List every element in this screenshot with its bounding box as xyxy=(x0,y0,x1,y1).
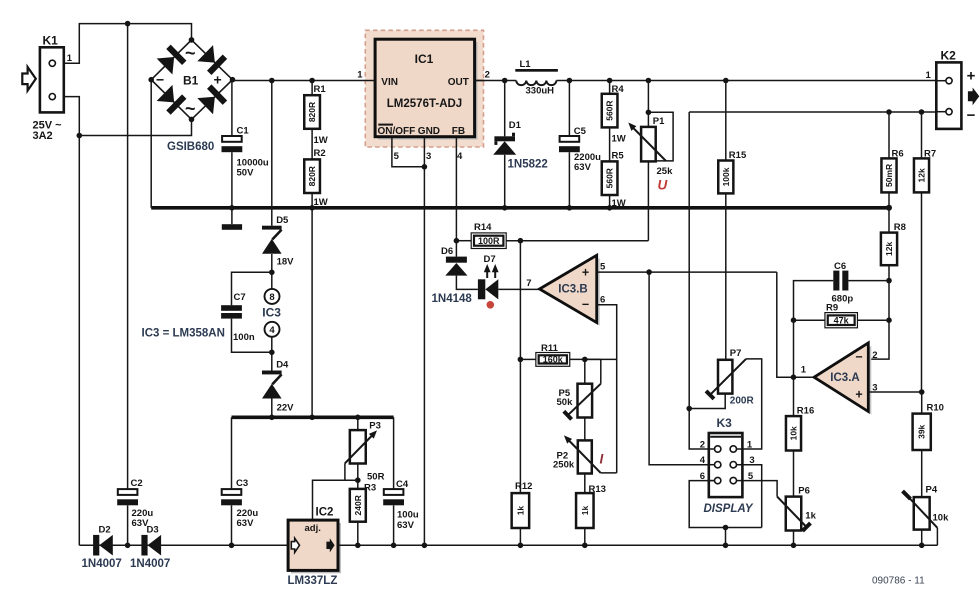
junction R12 / bottom rail xyxy=(518,543,524,549)
potentiometer P4 xyxy=(914,497,930,529)
svg-text:GSIB680: GSIB680 xyxy=(167,141,214,153)
svg-text:100k: 100k xyxy=(721,167,731,186)
junction D4 / bus2 xyxy=(269,415,275,421)
wire K3 gnd to rail xyxy=(725,528,727,546)
junction rail / R1 xyxy=(309,78,315,84)
bridge diode top-left xyxy=(157,45,187,75)
wire D1 bottom xyxy=(504,155,506,208)
wire P1 top xyxy=(647,81,649,127)
svg-text:P4: P4 xyxy=(926,484,938,495)
wire C1 bottom xyxy=(231,152,233,208)
svg-text:R8: R8 xyxy=(894,222,906,233)
svg-text:25k: 25k xyxy=(657,166,674,177)
LED arrows xyxy=(486,269,488,279)
wire R4 top xyxy=(609,81,611,94)
inductor L1 xyxy=(515,69,558,72)
junction P4 / bottom rail xyxy=(919,543,925,549)
P6 wiper xyxy=(777,497,806,527)
wire P5 wiper feed xyxy=(585,358,601,360)
resistor R15 xyxy=(718,161,733,194)
wire IC1 pin3 to bottom rail xyxy=(423,137,425,546)
svg-text:47k: 47k xyxy=(834,315,850,325)
junction R2 / 0V bus xyxy=(309,205,315,211)
svg-text:2: 2 xyxy=(485,70,490,81)
svg-text:D5: D5 xyxy=(276,215,289,226)
svg-text:1k: 1k xyxy=(580,506,590,516)
wire K2pin2 to K3 pin2 xyxy=(689,112,714,449)
junction rail / D5 chain xyxy=(269,78,275,84)
resistor R3 xyxy=(350,489,366,522)
svg-text:820R: 820R xyxy=(307,102,317,122)
wire rail L1 to K2 xyxy=(556,80,936,82)
svg-text:C6: C6 xyxy=(834,261,846,272)
junction R5 / 0V bus xyxy=(607,205,613,211)
zener D5 xyxy=(262,226,282,230)
svg-text:63V: 63V xyxy=(574,162,592,173)
svg-text:C7: C7 xyxy=(234,292,246,303)
wire D4 to bus2 xyxy=(271,399,273,418)
potentiometer P3 xyxy=(350,430,366,463)
svg-text:D1: D1 xyxy=(509,120,522,131)
junction K3 gnd xyxy=(723,525,729,531)
svg-text:−: − xyxy=(855,350,862,364)
svg-text:820R: 820R xyxy=(307,166,317,186)
ground symbol xyxy=(231,208,233,224)
wire C1 top xyxy=(231,81,233,137)
wire IC1 FB pin4 xyxy=(455,137,457,241)
svg-text:D7: D7 xyxy=(484,254,496,265)
junction C4 / bottom rail xyxy=(391,543,397,549)
svg-text:U: U xyxy=(658,178,669,193)
wire bridge minus vertex down xyxy=(150,80,152,208)
wire bus2 right end to C4 xyxy=(393,417,395,489)
wire P5 top xyxy=(584,359,586,383)
op IC1 regulator LM2576T-ADJ xyxy=(365,30,483,147)
wire P5-P2 xyxy=(584,418,586,441)
svg-text:4: 4 xyxy=(700,455,706,466)
svg-text:R12: R12 xyxy=(515,481,532,492)
wire C5 top xyxy=(568,81,570,137)
wire K1 pin2 to bridge AC2 xyxy=(79,119,191,135)
bridge rectifier B1 outline xyxy=(151,40,232,120)
wire K1 pin1 to top rail and bridge AC1 xyxy=(55,24,192,64)
bridge diode bottom-right xyxy=(197,84,227,114)
svg-text:560R: 560R xyxy=(605,168,615,188)
wire R6 bottom xyxy=(888,192,890,207)
wire C6 left xyxy=(794,281,834,321)
junction rail / R15 xyxy=(723,78,729,84)
junction FB node xyxy=(454,238,460,244)
svg-text:R9: R9 xyxy=(826,302,838,313)
0V bus 2 (thick) xyxy=(232,415,394,419)
junction K1 pin2 / bridge AC2 xyxy=(77,133,83,139)
svg-text:IC3: IC3 xyxy=(262,306,281,320)
junction pin1 node xyxy=(791,374,797,380)
svg-text:R14: R14 xyxy=(474,222,492,233)
wire IC3.A pin3 xyxy=(868,391,921,393)
svg-text:D6: D6 xyxy=(441,246,453,257)
svg-text:−: − xyxy=(156,72,164,88)
svg-text:1N4148: 1N4148 xyxy=(432,293,473,305)
svg-text:12k: 12k xyxy=(884,242,894,256)
svg-text:−: − xyxy=(967,107,976,124)
wire D6 top xyxy=(455,241,457,257)
resistor R14 xyxy=(471,233,506,249)
svg-text:160k: 160k xyxy=(543,355,564,365)
junction rail / C5 xyxy=(567,78,573,84)
svg-text:5: 5 xyxy=(600,262,606,273)
junction K3 / bottom rail xyxy=(723,543,729,549)
wire R6 top xyxy=(888,112,890,158)
svg-text:+: + xyxy=(967,68,976,85)
P3 wiper xyxy=(345,434,374,464)
svg-text:2: 2 xyxy=(872,350,877,361)
wire bus link vertical xyxy=(311,208,313,417)
P7 wiper xyxy=(710,359,746,395)
svg-text:1N4007: 1N4007 xyxy=(82,558,122,570)
svg-text:18V: 18V xyxy=(277,256,295,267)
op-amp IC3.A xyxy=(817,346,871,415)
svg-text:560R: 560R xyxy=(605,100,615,120)
svg-text:R6: R6 xyxy=(892,148,904,159)
K3 pin stubs xyxy=(709,448,715,450)
svg-text:330uH: 330uH xyxy=(526,86,555,97)
svg-text:VIN: VIN xyxy=(381,77,398,88)
wire pin5 to K3 pin4 xyxy=(649,272,715,465)
svg-text:50R: 50R xyxy=(367,471,385,482)
wire C6 right xyxy=(848,280,889,282)
junction rail / R4 xyxy=(607,78,613,84)
svg-text:R1: R1 xyxy=(314,84,327,95)
wire D5 to pin8 node xyxy=(271,254,273,272)
P4 wiper xyxy=(907,495,938,528)
svg-text:P3: P3 xyxy=(369,421,381,432)
junction R14 right / R12 chain xyxy=(518,238,524,244)
wire C2 bottom xyxy=(127,505,129,545)
diode D6 xyxy=(446,257,467,263)
wire C3 bottom xyxy=(231,505,233,545)
capacitor C7 xyxy=(221,305,242,311)
svg-text:~: ~ xyxy=(185,43,196,63)
svg-text:IC3.B: IC3.B xyxy=(558,284,587,296)
junction C2 / bottom rail xyxy=(125,543,131,549)
svg-text:100n: 100n xyxy=(233,332,255,343)
svg-text:240R: 240R xyxy=(353,495,363,515)
wire R8 bottom to pin2 xyxy=(868,265,889,359)
wire K2 pin2 rail xyxy=(689,111,936,113)
svg-text:50mR: 50mR xyxy=(884,164,894,187)
resistor R12 xyxy=(512,493,530,528)
P2 wiper xyxy=(567,439,601,473)
wire C4 bottom xyxy=(393,505,395,545)
junction rail2 / R6 xyxy=(886,109,892,115)
svg-text:200R: 200R xyxy=(730,395,755,406)
potentiometer P6 xyxy=(786,497,802,531)
svg-text:C4: C4 xyxy=(396,479,409,490)
wire R9 left xyxy=(794,319,825,321)
junction C5 / 0V bus xyxy=(567,205,573,211)
wire R15 top xyxy=(725,81,727,161)
svg-text:1: 1 xyxy=(801,365,807,376)
svg-text:2: 2 xyxy=(700,439,705,450)
wire pin5 corner down xyxy=(777,272,814,377)
connector K1 xyxy=(40,47,64,112)
junction pin3 / R10 xyxy=(919,389,925,395)
svg-text:1k: 1k xyxy=(805,510,816,521)
svg-text:+: + xyxy=(855,388,862,402)
resistor R2 xyxy=(304,159,320,193)
svg-text:LM2576T-ADJ: LM2576T-ADJ xyxy=(387,98,462,110)
junction R3 / bottom rail xyxy=(355,543,361,549)
wire P4 wiper to rail end xyxy=(936,528,938,546)
svg-text:4: 4 xyxy=(269,325,275,336)
svg-text:1W: 1W xyxy=(612,198,626,209)
svg-text:LM337LZ: LM337LZ xyxy=(288,575,338,587)
wire P7 bottom xyxy=(689,394,725,409)
svg-text:K3: K3 xyxy=(717,416,733,430)
svg-text:L1: L1 xyxy=(520,59,532,70)
svg-text:−: − xyxy=(582,298,589,312)
svg-text:250k: 250k xyxy=(553,459,575,470)
svg-text:100R: 100R xyxy=(478,236,500,246)
wire adj row xyxy=(313,480,358,520)
resistor R16 xyxy=(786,416,801,450)
svg-text:4: 4 xyxy=(457,151,463,162)
svg-text:+: + xyxy=(582,266,589,280)
wire feedback node vertical xyxy=(793,320,795,416)
capacitor C6 xyxy=(833,271,839,291)
svg-text:1N5822: 1N5822 xyxy=(508,158,548,170)
connector K2 xyxy=(936,62,961,128)
wire P2 wiper to pin6 xyxy=(601,472,617,474)
wire R1 top xyxy=(311,81,313,96)
junction OUT / D1 xyxy=(502,78,508,84)
svg-text:1: 1 xyxy=(926,70,932,81)
wire C7 branch xyxy=(232,272,272,305)
svg-text:D4: D4 xyxy=(276,360,289,371)
wire R1-R2 xyxy=(311,129,313,160)
svg-text:R4: R4 xyxy=(612,84,625,95)
wire IC3 supply pins xyxy=(271,272,273,289)
P1 wiper xyxy=(632,126,667,161)
potentiometer P7 xyxy=(718,360,732,394)
svg-text:IC3 = LM358AN: IC3 = LM358AN xyxy=(142,327,225,339)
svg-text:7: 7 xyxy=(526,278,531,289)
wire IC1 pin5 xyxy=(392,137,425,167)
potentiometer P2 xyxy=(578,440,592,473)
wire R10 top xyxy=(921,392,923,414)
wire R15 to P7 xyxy=(725,193,727,359)
svg-text:B1: B1 xyxy=(183,73,199,87)
svg-text:C2: C2 xyxy=(131,478,143,489)
wire P6 bottom xyxy=(793,531,795,546)
wire R9 right xyxy=(857,319,889,321)
junction node top wire / C2 branch xyxy=(125,21,131,27)
svg-text:C3: C3 xyxy=(236,478,248,489)
svg-text:63V: 63V xyxy=(397,520,415,531)
svg-text:R13: R13 xyxy=(589,484,606,495)
svg-text:1W: 1W xyxy=(612,134,626,145)
svg-text:100u: 100u xyxy=(397,510,419,521)
svg-text:IC1: IC1 xyxy=(415,52,434,66)
junction P1 top node xyxy=(646,110,652,116)
svg-text:1: 1 xyxy=(67,53,73,64)
capacitor C1 xyxy=(222,136,242,142)
wire R3 bottom xyxy=(357,522,359,546)
svg-text:R10: R10 xyxy=(927,402,944,413)
svg-text:1W: 1W xyxy=(314,135,328,146)
LED D7 xyxy=(478,279,485,299)
svg-text:090786 - 11: 090786 - 11 xyxy=(872,576,925,587)
junction rail2 / R7 xyxy=(919,109,925,115)
wire D7 to IC3.B pin7 xyxy=(498,288,539,290)
IC3 pin 8 circle xyxy=(265,289,280,304)
resistor R13 xyxy=(576,493,594,528)
wire K3 pin3 right xyxy=(736,465,761,528)
svg-text:D2: D2 xyxy=(99,525,111,536)
svg-text:I: I xyxy=(600,451,604,466)
svg-text:P6: P6 xyxy=(798,486,810,497)
junction R11 right / P5 xyxy=(582,357,588,363)
junction bus2 / P3 xyxy=(355,415,361,421)
wire VIN stub xyxy=(365,80,376,82)
svg-text:ON/OFF: ON/OFF xyxy=(378,126,416,137)
diode D1 schottky xyxy=(494,136,515,141)
wire P4 bottom xyxy=(921,530,923,546)
wire D1 top xyxy=(504,81,506,137)
svg-text:5: 5 xyxy=(748,471,754,482)
svg-text:5: 5 xyxy=(394,151,400,162)
wire R12 chain vertical xyxy=(519,241,521,493)
P5 wiper xyxy=(568,384,601,416)
op-amp IC3.B xyxy=(543,258,600,325)
junction D1 / 0V bus xyxy=(502,205,508,211)
junction node pin4 xyxy=(269,350,275,356)
svg-text:39k: 39k xyxy=(917,424,927,438)
bottom 0V wire xyxy=(79,544,288,546)
junction C1 / 0V bus xyxy=(229,205,235,211)
svg-text:3A2: 3A2 xyxy=(33,130,53,142)
bridge vertex dots xyxy=(189,37,195,43)
wire R13 bottom xyxy=(584,528,586,545)
junction R8 / R9 xyxy=(886,317,892,323)
svg-text:DISPLAY: DISPLAY xyxy=(704,503,754,515)
junction R9 left node xyxy=(791,317,797,323)
svg-text:8: 8 xyxy=(269,292,274,303)
svg-text:63V: 63V xyxy=(237,518,255,529)
svg-text:3: 3 xyxy=(426,151,431,162)
junction IC1 gnd / bottom rail xyxy=(422,543,428,549)
wire P3-R3 xyxy=(357,464,359,489)
svg-text:1: 1 xyxy=(357,70,363,81)
wire D5 chain from rail xyxy=(271,81,273,226)
junction pin5/pin3 xyxy=(422,164,428,170)
junction R13 / bottom rail xyxy=(582,543,588,549)
junction rail / P1 xyxy=(646,78,652,84)
zener D4 xyxy=(271,352,273,370)
resistor R9 xyxy=(825,313,858,328)
wire P7 wiper to K3 pin1 xyxy=(736,359,761,449)
junction P7 / K2pin2 line xyxy=(686,406,692,412)
svg-text:K1: K1 xyxy=(43,34,59,48)
svg-text:12k: 12k xyxy=(917,168,927,182)
wire K3 pin6 gnd loop xyxy=(689,481,762,528)
junction P6 / bottom rail xyxy=(791,543,797,549)
wire P3 top xyxy=(357,417,359,430)
output arrow xyxy=(968,88,979,106)
junction R8 / C6 xyxy=(886,278,892,284)
wire K3 pin5 to P6 wiper xyxy=(736,481,777,497)
wire K1 pin2 vertical xyxy=(55,97,79,546)
resistor R5 xyxy=(602,161,618,195)
red LED dot xyxy=(487,301,495,309)
resistor R11 xyxy=(536,353,570,367)
svg-text:+: + xyxy=(214,72,222,88)
svg-text:R3: R3 xyxy=(364,482,376,493)
svg-text:FB: FB xyxy=(452,126,465,137)
wire C3 top xyxy=(231,417,233,489)
junction 0V bus end xyxy=(886,205,892,211)
junction C3 / bottom rail xyxy=(229,543,235,549)
junction pin5 / K3 pin4 branch xyxy=(646,269,652,275)
wire R5 bottom xyxy=(609,195,611,208)
wire P3 wiper down xyxy=(344,463,346,480)
wire R11 left xyxy=(520,358,535,360)
svg-text:P1: P1 xyxy=(653,116,665,127)
svg-text:R15: R15 xyxy=(729,150,747,161)
svg-text:1k: 1k xyxy=(515,506,525,516)
svg-text:R2: R2 xyxy=(314,148,326,159)
resistor R6 xyxy=(881,158,896,192)
capacitor C4 xyxy=(384,489,404,495)
svg-text:1: 1 xyxy=(747,439,753,450)
potentiometer P5 xyxy=(578,384,593,418)
svg-text:R11: R11 xyxy=(541,343,559,354)
bridge diode top-right xyxy=(197,45,227,75)
bridge diode bottom-left xyxy=(157,85,187,115)
regulator IC2 LM337LZ xyxy=(291,523,341,573)
svg-text:OUT: OUT xyxy=(448,77,469,88)
svg-text:adj.: adj. xyxy=(305,523,321,534)
svg-text:1W: 1W xyxy=(314,197,328,208)
svg-text:IC3.A: IC3.A xyxy=(830,372,859,384)
svg-text:K2: K2 xyxy=(941,49,957,63)
wire R7 to pin3 node xyxy=(921,192,923,392)
wire pin6 row to R11 xyxy=(536,358,617,360)
wire OUT rail to L1 xyxy=(475,80,517,82)
resistor R7 xyxy=(914,158,929,192)
svg-text:P7: P7 xyxy=(730,348,742,359)
wire OUT stub xyxy=(475,80,485,82)
capacitor C2 xyxy=(118,489,138,495)
resistor R1 xyxy=(304,95,320,129)
junction P3/R3/adj xyxy=(355,477,361,483)
IC3 pin 4 circle xyxy=(265,322,280,337)
wire IC3.B pin5 rail xyxy=(597,271,777,273)
input arrow xyxy=(22,67,36,91)
wire R2 bottom xyxy=(311,193,313,208)
wire IC3.B pin6 jog xyxy=(597,305,617,473)
svg-text:10k: 10k xyxy=(789,426,799,440)
svg-text:R5: R5 xyxy=(612,151,625,162)
svg-text:R7: R7 xyxy=(924,148,936,159)
diode D2 xyxy=(93,535,99,556)
junction node 18V xyxy=(269,270,275,276)
wire R4-R5 xyxy=(609,127,611,161)
wire R8 top xyxy=(888,208,890,233)
svg-text:GND: GND xyxy=(418,126,440,137)
0V bus (thick) xyxy=(151,206,889,210)
